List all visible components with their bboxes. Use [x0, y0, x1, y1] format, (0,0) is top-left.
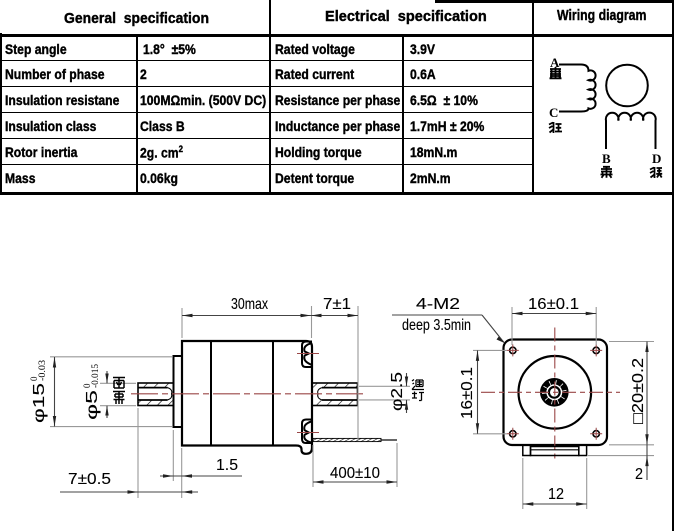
electrical rows: [275, 41, 355, 57]
bottom connector inner line: [531, 449, 579, 451]
row line 2: [0, 86, 533, 88]
mounting hole top-left: [510, 347, 516, 353]
label through-hole (CJK) vertical: [412, 380, 424, 401]
callout leader line: [482, 315, 504, 343]
svg-text:2: 2: [635, 466, 643, 483]
header: Electrical specification: [325, 8, 487, 25]
dim 16 left text: [459, 367, 476, 419]
divider electrical/wiring: [532, 0, 534, 193]
mounting hole bottom-left: [510, 431, 516, 437]
bottom mounting slot: [302, 420, 312, 444]
general rows: [5, 41, 67, 57]
shaft boss hatched ring (near solid): [544, 382, 565, 403]
row line 1: [0, 60, 533, 62]
table bottom border: [0, 192, 674, 195]
dim 400+-10 arrows: [313, 480, 324, 483]
dim 7+-0.5 line: [60, 491, 198, 493]
dim 30max arrows: [182, 314, 193, 317]
mounting hole bottom-right: [593, 431, 599, 437]
svg-text:16±0.1: 16±0.1: [528, 296, 579, 313]
svg-text:C: C: [549, 105, 558, 120]
left shaft hatched bottom band: [138, 400, 174, 406]
front large circle: [519, 356, 592, 429]
svg-text:B: B: [602, 151, 611, 166]
rotor circle: [606, 65, 648, 107]
dim 12 arrows: [523, 502, 534, 505]
body internal line 2 (end cap joint): [272, 341, 274, 446]
dim 7+-1 line: [311, 315, 358, 317]
dim phi15 extension lines: [50, 357, 172, 427]
row line 4: [0, 138, 533, 140]
dim phi15 line: [54, 357, 56, 427]
dim 2 line: [646, 445, 648, 480]
shaft boss outer circle: [541, 379, 568, 406]
svg-text:16±0.1: 16±0.1: [459, 367, 476, 419]
svg-text:12: 12: [548, 486, 564, 503]
dim 400+-10 extension lines: [313, 443, 397, 487]
dim sq20 extension lines: [588, 342, 654, 456]
label red (CJK) under C: [549, 122, 562, 133]
svg-text:□20±0.2: □20±0.2: [630, 358, 647, 424]
dim 16 left arrows: [476, 350, 479, 361]
row line 3: [0, 112, 533, 114]
front square body: [504, 340, 608, 446]
dim 7+-0.5 extension line: [137, 408, 139, 498]
svg-text:D: D: [652, 151, 661, 166]
callout leader arrowhead: [497, 336, 505, 343]
wire A to coil: [559, 64, 581, 66]
svg-text:φ15: φ15: [31, 383, 48, 423]
svg-text:1.5: 1.5: [216, 457, 238, 474]
inductor coil phase A-C: [581, 65, 596, 112]
wire coil to C: [559, 111, 581, 113]
svg-text:-0.03: -0.03: [37, 359, 47, 381]
top slot centerline: [297, 353, 319, 355]
bottom connector right tab: [579, 445, 587, 456]
dim phi5 arrow lines: [106, 371, 108, 418]
label green (CJK) under D: [650, 167, 662, 178]
dim 400+-10 line: [313, 481, 397, 483]
right shaft hole lines: [322, 388, 358, 400]
svg-text:-0.015: -0.015: [90, 363, 100, 388]
right shaft hatched top band: [312, 383, 358, 388]
dim phi15 arrows: [53, 357, 56, 368]
svg-text:4-M2: 4-M2: [416, 296, 460, 313]
header bottom line: [0, 34, 674, 37]
mounting hole top-right: [593, 347, 599, 353]
lead wire tip: [381, 439, 397, 441]
divider electrical label/value: [402, 35, 404, 193]
dim 7+-1 arrows: [311, 314, 322, 317]
dim phi5 arrows: [105, 374, 108, 384]
dim 16 left extension lines: [473, 350, 507, 433]
row line 5: [0, 164, 533, 166]
header: General specification: [64, 10, 209, 27]
dim 7+-0.5 arrows: [128, 490, 139, 493]
dim 16 top arrows: [512, 312, 523, 315]
left shaft hatched top band: [138, 383, 174, 388]
dim 16 top line: [512, 313, 596, 315]
right shaft hatched bottom band: [312, 400, 358, 406]
label both-ends (CJK) vertical: [113, 378, 125, 405]
shaft bore: [549, 387, 560, 398]
left shaft hole lines: [138, 388, 168, 400]
bottom connector bar: [531, 447, 579, 456]
label black (CJK) under A: [550, 67, 562, 78]
svg-text:400±10: 400±10: [330, 465, 380, 482]
lead wire cable hatched: [313, 438, 381, 441]
table top border (right part only): [435, 0, 674, 3]
dim 2 arrow: [645, 456, 648, 467]
dim phi5 text: [82, 363, 101, 420]
dim sq20 text: [630, 358, 647, 424]
svg-text:φ2.5: φ2.5: [389, 372, 406, 411]
left shaft hole end curve: [168, 388, 172, 400]
right shaft hole end curve: [318, 388, 322, 400]
inductor coil phase B-D: [606, 113, 656, 149]
dim 30max extension lines: [182, 306, 312, 338]
dim 1.5 arrows: [163, 474, 173, 477]
dim phi5 extension lines: [100, 383, 136, 405]
dim phi2.5 arrow lines: [406, 373, 408, 413]
bottom slot crescent: [304, 421, 311, 442]
left shaft outline: [138, 383, 174, 406]
header: Wiring diagram: [557, 7, 646, 24]
svg-text:7±0.5: 7±0.5: [68, 471, 111, 488]
dim 30max line: [182, 315, 311, 317]
dim phi2.5 extension lines: [359, 386, 410, 400]
bottom slot centerline: [297, 432, 319, 434]
front view centerlines red: [481, 328, 620, 463]
dim sq20 line: [646, 342, 648, 445]
motor body outline: [182, 341, 312, 454]
svg-text:deep 3.5min: deep 3.5min: [402, 317, 471, 334]
table right border: [672, 0, 674, 531]
table left border: [0, 33, 2, 195]
dim sq20 arrows: [645, 342, 648, 353]
top mounting slot: [302, 342, 312, 368]
divider general/electrical: [269, 0, 271, 193]
label yellow (CJK) under B: [601, 166, 613, 178]
front flange: [174, 356, 183, 427]
dim 1.5 line: [160, 475, 242, 477]
dim 12 extension lines: [523, 458, 587, 509]
body internal line 1: [210, 341, 212, 446]
hole crosshairs red: [507, 344, 602, 439]
svg-text:30max: 30max: [231, 296, 268, 313]
dim 12 line: [523, 503, 587, 505]
main centerline: [131, 393, 366, 395]
dim 1.5 extension lines: [173, 430, 181, 498]
dim phi2.5 text: [389, 372, 406, 411]
dim phi2.5 arrows: [405, 377, 408, 387]
top slot crescent: [304, 343, 311, 365]
right shaft outline: [312, 383, 358, 406]
svg-text:φ5: φ5: [84, 390, 101, 420]
divider general label/value: [136, 35, 138, 193]
svg-text:7±1: 7±1: [323, 296, 351, 313]
dim 16 top extension lines: [512, 307, 596, 345]
dim 7+-1 extension line: [357, 306, 359, 440]
dim 16 left line: [477, 350, 479, 433]
callout shoulder line: [392, 314, 482, 316]
bottom connector left tab: [523, 445, 531, 456]
dim phi15 text: [29, 359, 48, 423]
